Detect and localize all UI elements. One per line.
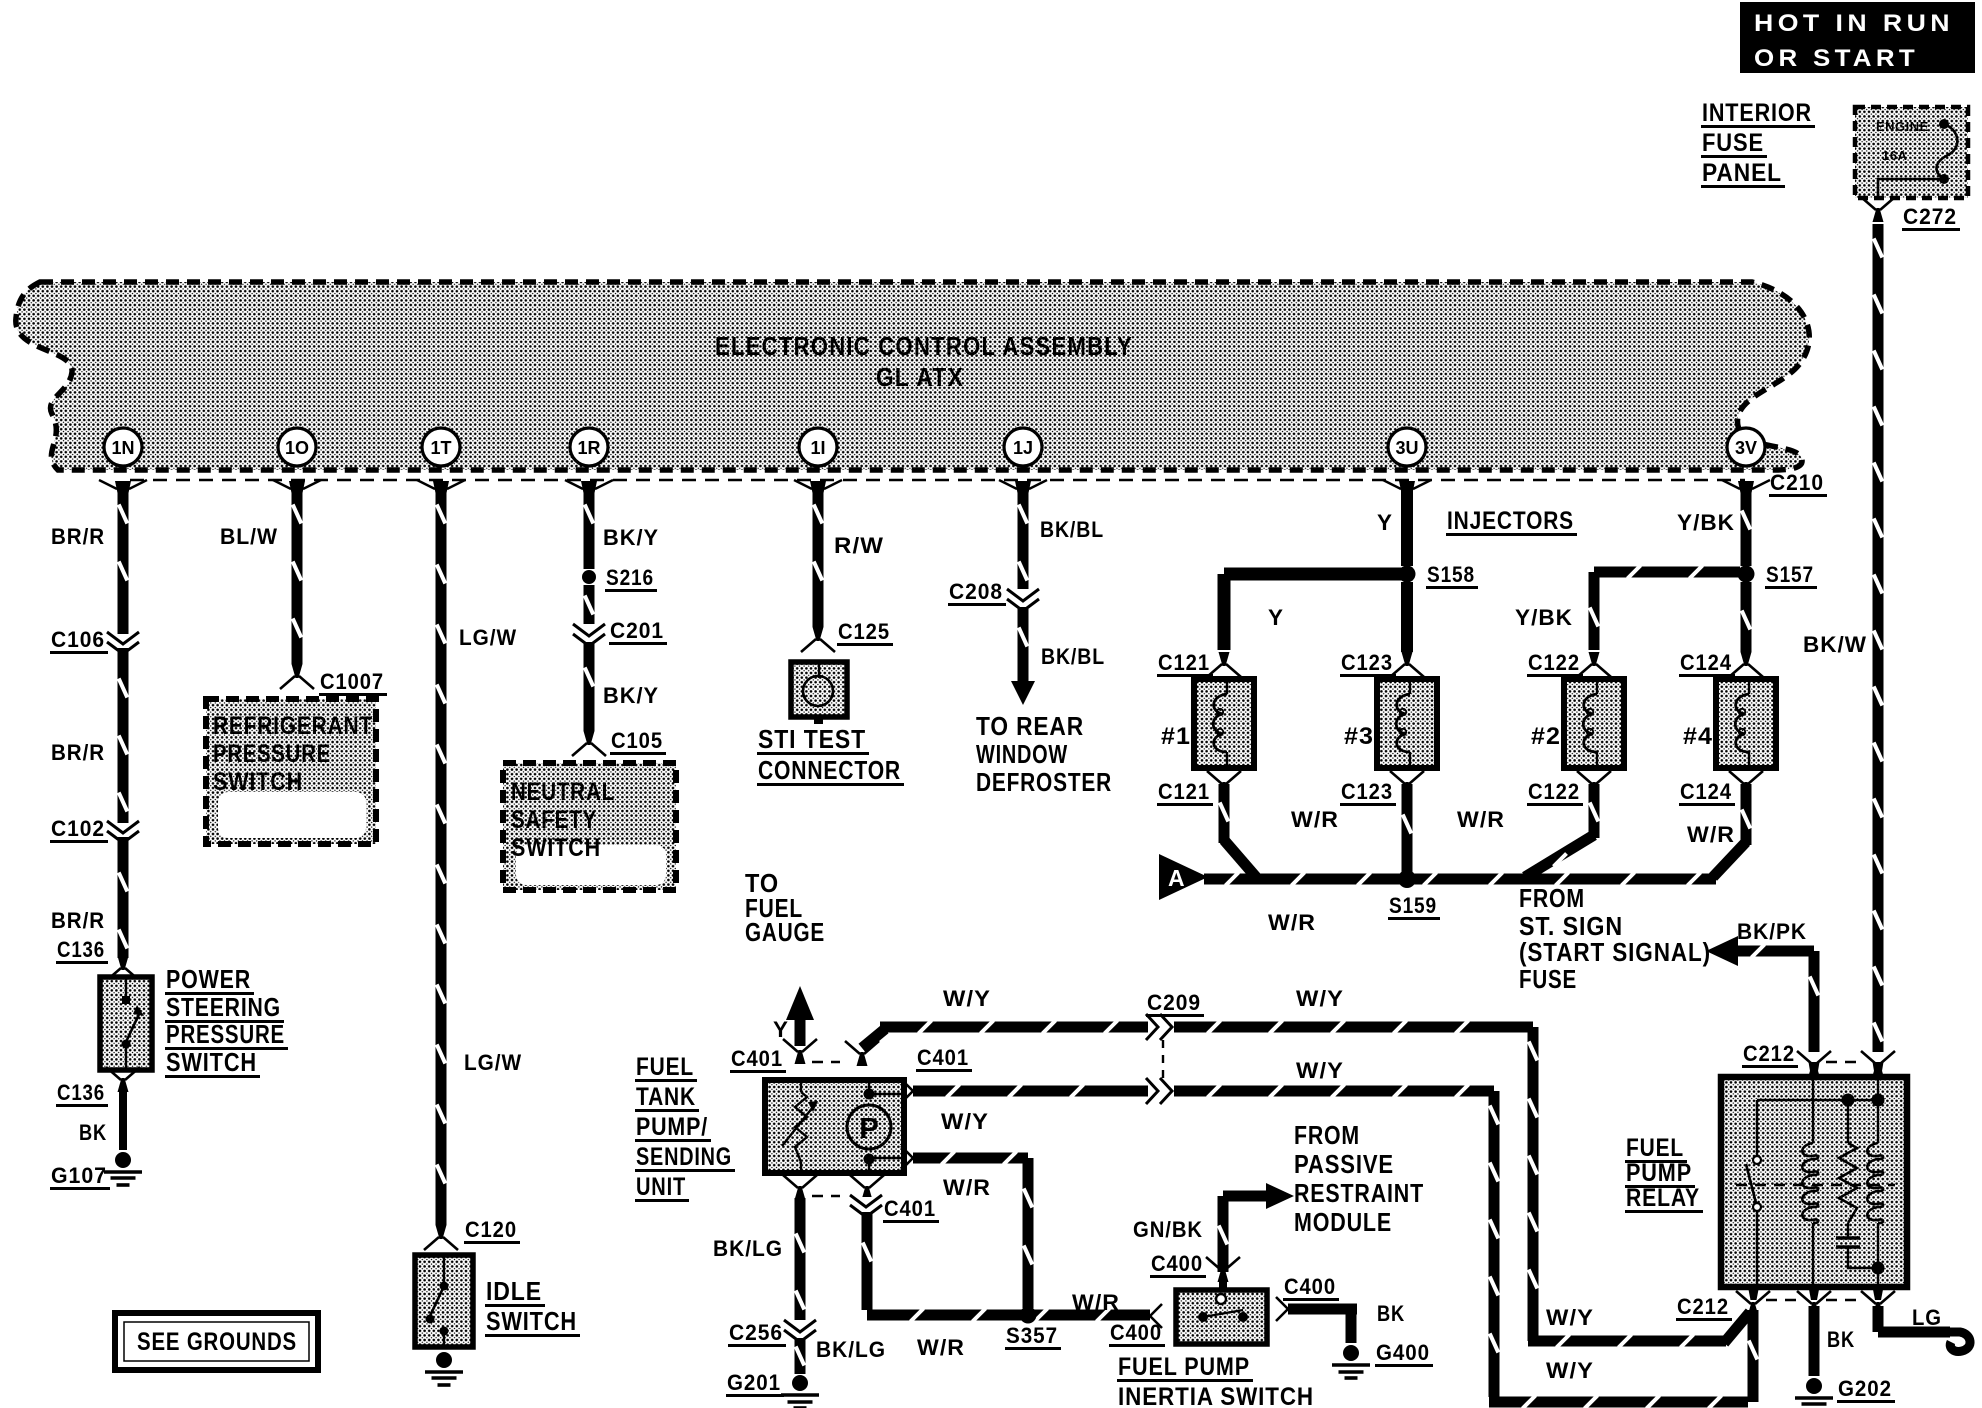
svg-text:W/R: W/R [1291,807,1339,832]
svg-text:G400: G400 [1376,1340,1430,1365]
label power steering pressure switch [165,964,288,1078]
relay internal resistor [1839,1100,1857,1223]
svg-text:WINDOW: WINDOW [976,739,1068,769]
svg-text:C256: C256 [729,1320,783,1345]
svg-text:W/Y: W/Y [941,1109,989,1134]
wire W/R S357 to inertia switch [1072,1290,1120,1315]
svg-text:BK/BL: BK/BL [1041,644,1105,669]
ground G400 [1332,1340,1433,1378]
svg-text:C102: C102 [51,816,105,841]
svg-text:DEFROSTER: DEFROSTER [976,767,1112,797]
switch neutral safety switch box [503,763,676,890]
wire W/Y C209 to bottom right (lower) [1174,1085,1759,1408]
svg-text:INERTIA SWITCH: INERTIA SWITCH [1118,1383,1314,1408]
splice S159 [1388,870,1440,920]
svg-text:BK: BK [1377,1301,1405,1326]
connector C401 right of pump (W/Y) [901,1079,913,1103]
svg-text:C136: C136 [57,937,105,962]
connector C136 lower [56,1067,140,1107]
wire BR/R pin 1N to C106 [51,490,129,634]
splice S158 [1399,562,1479,589]
wire W/R injector #1 to bus [1219,784,1340,877]
svg-text:BR/R: BR/R [51,740,105,765]
note to rear window defroster [976,711,1112,797]
svg-text:BK/BL: BK/BL [1040,517,1104,542]
svg-text:NEUTRAL: NEUTRAL [511,778,615,806]
svg-text:W/Y: W/Y [1546,1358,1594,1383]
connector C401 right lower of pump (W/R) [901,1146,913,1170]
ECU box ELECTRONIC CONTROL ASSEMBLY GL ATX [16,282,1809,470]
ECA pin 1O [273,428,321,493]
svg-text:P: P [859,1113,878,1145]
svg-text:W/Y: W/Y [943,986,991,1011]
svg-text:C208: C208 [949,579,1003,604]
svg-text:#1: #1 [1161,723,1191,750]
wire BK/Y pin 1R to splice S216 [584,490,660,569]
ECA pin 1J [999,428,1047,493]
svg-text:SAFETY: SAFETY [511,806,597,834]
svg-text:SWITCH: SWITCH [511,834,601,862]
relay internal top wire with junctions [1757,1077,1885,1107]
svg-text:C123: C123 [1341,650,1393,675]
svg-text:1I: 1I [810,438,825,458]
svg-text:BK/LG: BK/LG [713,1236,783,1261]
svg-text:A: A [1168,865,1185,891]
see grounds reference box [115,1313,318,1370]
connector C208 inline [948,579,1039,611]
ECA pin 3V [1722,428,1770,493]
svg-text:C212: C212 [1677,1294,1729,1319]
svg-text:SEE GROUNDS: SEE GROUNDS [137,1328,297,1356]
connector C106 inline [50,627,139,654]
svg-text:C212: C212 [1743,1041,1795,1066]
wire BK/LG pump to C256 [713,1198,806,1320]
svg-text:#3: #3 [1344,723,1374,750]
svg-text:PRESSURE: PRESSURE [213,740,331,768]
svg-text:G201: G201 [727,1370,781,1395]
svg-text:W/Y: W/Y [1546,1305,1594,1330]
injector #2 with connector C122 [1527,650,1624,806]
svg-text:STI TEST: STI TEST [758,724,866,754]
note to fuel gauge [745,868,825,947]
svg-text:BK/PK: BK/PK [1737,919,1807,944]
svg-text:W/R: W/R [917,1335,965,1360]
svg-text:Y: Y [1268,605,1284,630]
svg-text:GAUGE: GAUGE [745,917,825,947]
svg-text:C121: C121 [1158,779,1210,804]
wire Y/BK pin 3V to S157 [1677,490,1752,566]
svg-text:S216: S216 [606,565,654,590]
relay actuation dashed link [1736,1184,1895,1187]
wire BK/BL pin 1J to C208 [1018,490,1105,589]
svg-text:ENGINE: ENGINE [1876,119,1929,134]
svg-text:ELECTRONIC CONTROL ASSEMBLY: ELECTRONIC CONTROL ASSEMBLY [715,331,1133,361]
ground below idle switch [425,1352,463,1385]
switch refrigerant pressure switch box [206,699,376,844]
relay internal capacitor [1836,1223,1878,1268]
svg-text:W/Y: W/Y [1296,1058,1344,1083]
svg-text:Y/BK: Y/BK [1677,510,1735,535]
connector C102 inline [50,816,139,843]
wire W/R pump bottom to S357 bus [862,1212,1151,1360]
node A triangle (to fuel pump W/R) [1159,854,1208,900]
wire BK relay to G202 [1797,1291,1855,1376]
svg-text:C400: C400 [1284,1274,1336,1299]
wire W/R pump right to S357 [913,1152,1034,1309]
svg-text:C120: C120 [465,1217,517,1242]
connector C256 inline [728,1320,816,1347]
svg-text:BK: BK [79,1120,107,1145]
svg-text:SWITCH: SWITCH [486,1306,577,1336]
svg-text:3V: 3V [1735,438,1757,458]
svg-text:GL ATX: GL ATX [876,362,964,392]
note from st. sign start signal fuse [1519,883,1711,994]
component interior fuse panel label [1701,99,1815,188]
note from passive restraint module [1294,1120,1424,1237]
svg-text:INTERIOR: INTERIOR [1702,99,1812,127]
svg-text:INJECTORS: INJECTORS [1447,507,1574,535]
svg-text:Y: Y [1377,510,1393,535]
svg-text:LG: LG [1912,1305,1942,1330]
svg-text:CONNECTOR: CONNECTOR [758,755,901,785]
svg-text:1N: 1N [111,438,134,458]
label idle switch [485,1276,580,1337]
power source label HOT IN RUN OR START [1740,2,1975,73]
svg-text:C401: C401 [884,1196,936,1221]
svg-text:G202: G202 [1838,1376,1892,1401]
connector C401 top left of pump [730,1039,817,1073]
connector C120 [424,1217,520,1250]
ground G201 [726,1370,819,1408]
label STI test connector [757,724,904,786]
svg-text:(START SIGNAL): (START SIGNAL) [1519,937,1711,967]
svg-text:PANEL: PANEL [1702,159,1782,187]
wire Y S158 branch to C121 [1218,568,1414,651]
svg-text:S159: S159 [1389,893,1437,918]
svg-text:16A: 16A [1882,148,1907,163]
wire BK/Y C201 to C105 [584,642,660,731]
svg-text:SWITCH: SWITCH [166,1047,257,1077]
ECA pin 1R [565,428,613,493]
wire Y S158 to C123 [1401,582,1413,652]
svg-text:3U: 3U [1395,438,1418,458]
svg-text:LG/W: LG/W [459,625,517,650]
connector C401 top right of pump [812,1041,972,1072]
svg-text:#2: #2 [1531,723,1561,750]
wire BL/W pin 1O to C1007 [220,490,303,664]
arrow to rear window defroster [1011,681,1035,705]
svg-text:PRESSURE: PRESSURE [166,1019,285,1049]
svg-text:FUSE: FUSE [1702,129,1764,157]
svg-text:BR/R: BR/R [51,524,105,549]
svg-text:C400: C400 [1110,1320,1162,1345]
wire BK/LG C256 to G201 [795,1337,887,1374]
svg-text:PUMP/: PUMP/ [636,1113,708,1141]
svg-text:SWITCH: SWITCH [213,768,303,796]
STI test connector component [791,662,847,724]
switch fuel pump inertia switch box [1176,1290,1267,1344]
svg-text:S157: S157 [1766,562,1814,587]
fuse element symbol [1878,119,1957,200]
wire W/R injector #2 to bus [1525,784,1600,877]
ground G202 [1795,1376,1895,1408]
relay coil (secondary) [1867,1100,1884,1287]
svg-text:IDLE: IDLE [486,1276,542,1306]
svg-text:BK/Y: BK/Y [603,525,659,550]
wire W/Y C209 to relay via right elbow (upper) [1174,986,1750,1348]
svg-text:C401: C401 [917,1045,969,1070]
svg-text:BK/W: BK/W [1803,632,1867,657]
connector C401 bottom of pump [783,1175,939,1223]
injector #1 with connector C121 [1157,650,1254,806]
svg-text:OR START: OR START [1754,45,1919,72]
svg-text:1J: 1J [1013,438,1033,458]
svg-text:TO REAR: TO REAR [976,711,1084,741]
ground G107 [50,1152,142,1190]
wire Y/BK splice S157 to C122 [1515,566,1740,651]
wire BK/PK start signal to relay [1706,919,1820,1052]
wire W/R bus from node A to C124 branch [1204,873,1716,936]
label fuel pump relay [1625,1134,1703,1213]
svg-text:1T: 1T [430,438,451,458]
svg-text:LG/W: LG/W [464,1050,522,1075]
wire BR/R C102 to C136 [51,837,129,958]
sender variable resistor inside pump unit [782,1080,818,1173]
svg-text:Y/BK: Y/BK [1515,605,1573,630]
wire R/W pin 1I to C125 [813,490,885,627]
svg-text:RESTRAINT: RESTRAINT [1294,1178,1424,1208]
fuse box ENGINE 16A (interior fuse panel) [1855,107,1968,198]
svg-text:C1007: C1007 [320,669,384,694]
fuel pump motor P inside pump unit [847,1080,904,1173]
svg-text:UNIT: UNIT [636,1173,686,1201]
svg-text:C124: C124 [1680,779,1732,804]
ECA pin 1I [794,428,842,493]
connector C272 [1861,197,1960,231]
svg-text:W/R: W/R [1457,807,1505,832]
svg-text:W/R: W/R [1072,1290,1120,1315]
connector C1007 [280,664,387,696]
wire GN/BK to passive restraint module [1133,1183,1294,1272]
switch power steering pressure switch [100,977,152,1070]
connector C125 [801,619,893,652]
svg-text:C122: C122 [1528,650,1580,675]
svg-text:PUMP: PUMP [1626,1159,1692,1187]
svg-text:S357: S357 [1006,1323,1058,1348]
label fuel tank pump sending unit [635,1053,735,1202]
relay coil (primary) [1802,1077,1818,1287]
svg-text:C106: C106 [51,627,105,652]
label injectors heading [1446,507,1577,536]
connector C201 inline [573,618,667,646]
svg-text:C123: C123 [1341,779,1393,804]
svg-text:FROM: FROM [1519,883,1585,913]
wire Y pin 3U to splice S158 [1377,490,1413,566]
svg-text:SENDING: SENDING [636,1143,732,1171]
svg-text:BK: BK [1827,1327,1855,1352]
wire LG relay output [1861,1291,1970,1351]
svg-text:C210: C210 [1770,470,1824,495]
wire W/R injector #4 to bus [1687,784,1752,877]
wire BR/R C106 to C102 [51,648,129,823]
wire W/Y pump right to C209 (lower) [913,1058,1344,1134]
svg-text:C401: C401 [731,1046,783,1071]
connector C136 upper [56,937,140,981]
splice S357 [1005,1307,1061,1351]
svg-text:BR/R: BR/R [51,908,105,933]
svg-text:FUEL PUMP: FUEL PUMP [1118,1353,1250,1381]
wire Y/BK S157 to C124 [1741,582,1752,652]
connector C212 bottom of relay W/Y pin [1676,1291,1770,1321]
connector C209 inline break [1146,990,1204,1104]
switch idle switch box [415,1255,473,1347]
svg-text:FUEL: FUEL [1626,1134,1684,1162]
svg-text:C121: C121 [1158,650,1210,675]
connector C105 [572,728,666,756]
connector C212 top of relay [1742,1041,1895,1077]
relay bottom connector plane dashed [1748,1287,1884,1300]
ECA pin 1N [99,428,147,493]
svg-text:STEERING: STEERING [166,992,281,1022]
wire BK/W from C272 down to fuel pump relay C212 [1803,224,1884,1052]
relay internal switch [1746,1100,1761,1287]
fuel tank pump sending unit box [765,1080,904,1173]
svg-text:RELAY: RELAY [1626,1184,1700,1212]
arrow Y to fuel gauge [773,986,814,1046]
ECA pin 1T [417,428,465,493]
injector #4 with connector C124 [1679,650,1776,806]
label fuel pump inertia switch [1117,1353,1317,1408]
svg-text:REFRIGERANT: REFRIGERANT [213,712,373,740]
connector C400 left [1109,1304,1165,1347]
svg-text:1O: 1O [285,438,309,458]
splice S216 [582,565,657,592]
wire W/R injector #3 to splice S159 [1402,784,1506,872]
svg-text:W/R: W/R [1268,910,1316,935]
svg-text:TANK: TANK [636,1083,696,1111]
wire BK/Y S216 to C201 [584,585,595,624]
svg-text:BK/LG: BK/LG [816,1337,886,1362]
svg-text:HOT IN RUN: HOT IN RUN [1754,10,1954,37]
splice S157 [1738,562,1818,589]
svg-text:C400: C400 [1151,1251,1203,1276]
connector C400 right [1276,1274,1339,1321]
svg-text:GN/BK: GN/BK [1133,1217,1203,1242]
svg-text:C272: C272 [1903,204,1957,229]
svg-text:1R: 1R [577,438,600,458]
wire W/Y pump to C209 (upper) [862,986,1148,1048]
wire BK inertia switch to G400 [1288,1301,1405,1343]
svg-text:W/R: W/R [1687,822,1735,847]
svg-text:W/Y: W/Y [1296,986,1344,1011]
wire LG/W pin 1T to C120 [436,490,523,1225]
svg-text:#4: #4 [1683,723,1713,750]
wire BK/BL C208 to arrow [1018,607,1106,681]
svg-text:PASSIVE: PASSIVE [1294,1149,1394,1179]
connector C210 label [1769,470,1827,497]
injector #3 with connector C123 [1340,650,1437,806]
ECA pin 3U [1383,428,1431,493]
svg-text:R/W: R/W [834,533,884,558]
svg-text:FUEL: FUEL [636,1053,694,1081]
svg-text:C105: C105 [611,728,663,753]
svg-text:MODULE: MODULE [1294,1207,1392,1237]
wire BK to ground G107 [79,1092,127,1150]
svg-text:BK/Y: BK/Y [603,683,659,708]
svg-text:FROM: FROM [1294,1120,1360,1150]
svg-text:S158: S158 [1427,562,1475,587]
svg-text:BL/W: BL/W [220,524,278,549]
svg-text:C136: C136 [57,1080,105,1105]
svg-text:C209: C209 [1147,990,1201,1015]
svg-text:Y: Y [773,1017,789,1042]
ECA connector plane dashed line (C210) [130,479,1745,481]
svg-text:C125: C125 [838,619,890,644]
connector C400 top [1150,1251,1240,1292]
svg-text:C201: C201 [610,618,664,643]
svg-text:C122: C122 [1528,779,1580,804]
svg-text:FUSE: FUSE [1519,964,1577,994]
svg-text:W/R: W/R [943,1175,991,1200]
svg-text:G107: G107 [51,1163,107,1188]
relay fuel pump relay box [1721,1077,1907,1287]
svg-text:C124: C124 [1680,650,1732,675]
svg-text:POWER: POWER [166,964,251,994]
